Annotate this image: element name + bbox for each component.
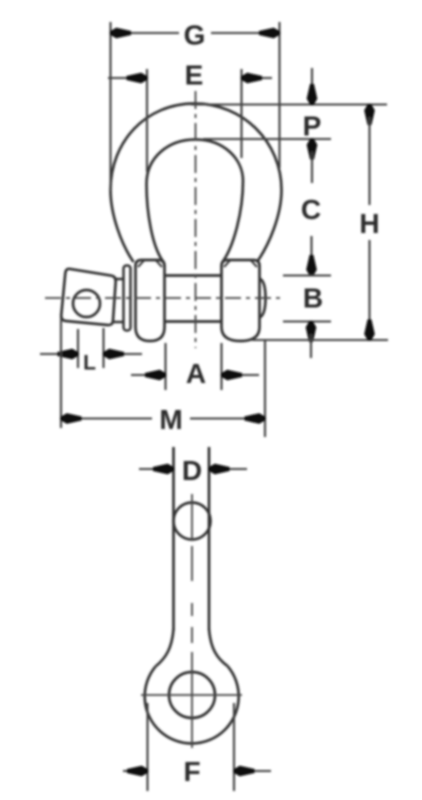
pin head crosshair centerlines — [141, 652, 242, 748]
dimension B lower arrow — [306, 322, 315, 342]
shackle vertical centerline — [195, 91, 197, 348]
dimension E line and arrows — [108, 77, 272, 79]
shackle bow outer profile — [111, 104, 282, 263]
right ear boss — [222, 260, 260, 341]
dimension F extension lines — [148, 703, 235, 791]
dimension G extension lines — [111, 22, 280, 191]
svg-text:L: L — [83, 352, 96, 375]
right ear chamfer ticks — [224, 261, 257, 268]
svg-text:H: H — [359, 208, 379, 239]
pin horizontal centerline — [45, 297, 284, 299]
svg-text:F: F — [183, 756, 200, 787]
pin head eye hole — [169, 672, 215, 718]
pin neck between head and collar — [114, 279, 124, 322]
svg-text:P: P — [303, 111, 322, 142]
dimension M extension lines — [61, 318, 265, 437]
dimension A extension lines — [166, 343, 222, 390]
dimension G line and arrows — [124, 32, 266, 34]
dimension P upper arrow — [311, 68, 313, 92]
shackle bow inner profile — [147, 140, 244, 263]
dimension L extension lines — [78, 328, 104, 368]
pin vertical centerline — [191, 494, 193, 541]
dimension L line and arrows — [40, 353, 142, 355]
svg-text:A: A — [186, 358, 206, 389]
pin collar circle on shank — [174, 503, 211, 540]
dimension A line and arrows — [131, 374, 259, 376]
svg-text:M: M — [159, 404, 182, 435]
bottom reference line (H datum) — [252, 339, 388, 341]
dimension D line and arrows — [139, 468, 247, 470]
dimension B reference lines — [283, 276, 331, 322]
dimension M line and arrows — [74, 417, 252, 419]
svg-text:G: G — [184, 20, 206, 51]
pin drawing shank — [174, 447, 210, 630]
shared arrow P/C at inner-top datum — [307, 139, 316, 159]
svg-text:C: C — [301, 194, 321, 225]
pin collar flange — [124, 266, 131, 331]
svg-text:E: E — [185, 60, 204, 91]
screw pin head hole — [73, 290, 100, 317]
dimension H line and arrows — [365, 105, 374, 125]
dimension C lower arrow — [310, 236, 312, 263]
top reference line (H/P datum) — [191, 103, 387, 105]
dimension E extension lines — [147, 69, 242, 172]
dimension F line and arrows — [123, 770, 271, 772]
inner-top reference line (P/C datum) — [203, 138, 331, 140]
screw pin head — [61, 269, 116, 325]
screw pin shank between ears — [165, 276, 222, 322]
left ear boss — [136, 260, 165, 341]
svg-text:D: D — [182, 455, 202, 486]
pin head flare and round head — [156, 629, 174, 667]
screw pin tip protruding right — [260, 279, 266, 318]
left ear chamfer ticks — [138, 261, 162, 268]
svg-text:B: B — [303, 283, 323, 314]
